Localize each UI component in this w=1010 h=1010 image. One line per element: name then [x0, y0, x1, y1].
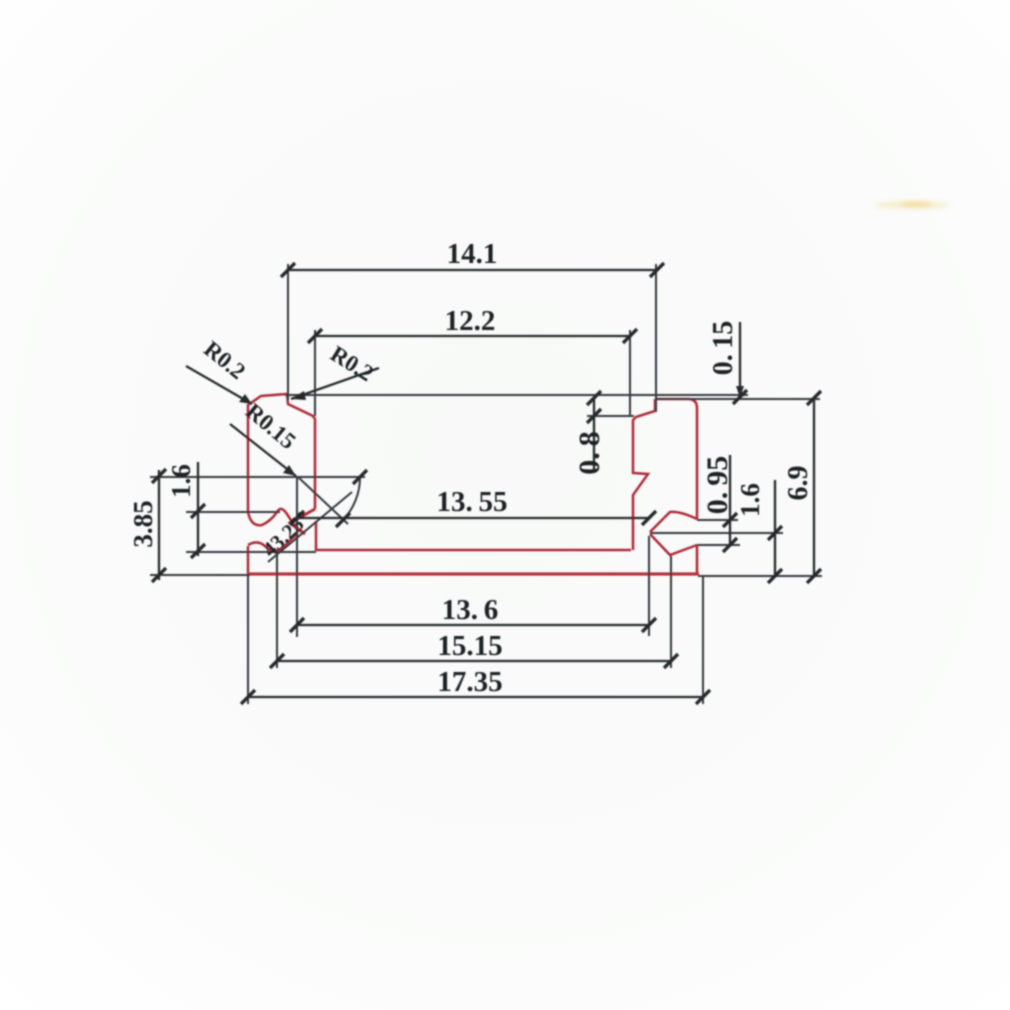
ext 0.8 step	[587, 415, 634, 417]
ext right apex level	[650, 532, 783, 534]
dimension ticks	[152, 263, 821, 704]
dim line 14.1	[288, 269, 657, 271]
svg-text:0. 95: 0. 95	[701, 456, 734, 515]
dim texts vertical	[128, 321, 814, 548]
svg-text:6.9: 6.9	[783, 466, 814, 501]
dim line 1.6 right	[774, 480, 776, 577]
angle text diagonal	[268, 492, 352, 562]
svg-text:0. 8: 0. 8	[573, 431, 606, 475]
svg-text:13. 55: 13. 55	[436, 486, 507, 518]
svg-text:1.6: 1.6	[166, 464, 196, 498]
dim line 1.6 left	[197, 462, 199, 556]
ext slot upper y512	[186, 511, 280, 513]
dim line 17.35	[248, 696, 703, 698]
svg-text:1.6: 1.6	[735, 483, 765, 517]
profile: channel floor	[316, 521, 631, 550]
profile: right wall lower outer	[696, 545, 699, 574]
dim line 13.6	[297, 624, 649, 626]
dim line 0.8	[593, 397, 595, 473]
ext top level right wall	[656, 398, 820, 400]
svg-text:13. 6: 13. 6	[442, 594, 499, 626]
profile: right slot	[650, 512, 697, 532]
dim line 6.9	[813, 397, 815, 577]
dim line 15.15	[277, 660, 671, 662]
svg-text:12.2: 12.2	[445, 305, 496, 337]
profile: right wall	[655, 399, 697, 519]
ext slot lower y552	[186, 551, 316, 553]
ext bottom right	[698, 575, 822, 577]
dim line 12.2	[315, 335, 630, 337]
profile: left slot upper edge	[248, 509, 298, 531]
ext bottom left	[150, 574, 250, 576]
extension lines	[150, 264, 822, 704]
ext vertical 17.35 left	[247, 576, 249, 704]
svg-text:17.35: 17.35	[437, 666, 502, 698]
ext 12.2 right	[629, 330, 631, 417]
profile: left wall inner diagonal	[290, 509, 315, 534]
ext top level left wall	[285, 394, 748, 396]
ext right slot mouth bottom	[697, 544, 740, 546]
ext vertical 15.15 right	[670, 556, 672, 668]
ext 14.1 left	[287, 264, 289, 400]
leader arrows	[239, 386, 744, 476]
radius and angle labels	[199, 336, 378, 561]
profile outline: left wall top	[248, 394, 699, 574]
ext right slot mouth top	[697, 519, 738, 521]
leader R0.15	[230, 424, 296, 476]
profile: left slot lower edge	[248, 533, 298, 551]
dim line 0.15	[739, 322, 741, 397]
ext 12.2 left	[314, 330, 316, 416]
ext vertical 15.15 left	[276, 553, 278, 668]
dim texts horizontal	[436, 238, 507, 698]
ext slot level y477	[150, 476, 365, 478]
ext vertical right apex	[648, 536, 650, 636]
ext vertical 17.35 right	[702, 577, 704, 704]
svg-text:3.85: 3.85	[128, 500, 158, 547]
angle leg diagonal	[298, 477, 348, 524]
dim line 3.85	[158, 470, 160, 580]
leader R0.2 #2	[291, 368, 379, 399]
profile: left wall lower outer	[247, 546, 250, 574]
dimension lines	[159, 270, 814, 697]
angle arc	[343, 477, 360, 520]
dim line 0.95	[729, 455, 731, 546]
profile: bottom line	[248, 572, 699, 575]
ext 14.1 right	[655, 264, 657, 412]
svg-text:15.15: 15.15	[437, 630, 502, 662]
yellow smudge	[874, 201, 950, 209]
svg-text:0. 15: 0. 15	[708, 321, 739, 376]
ext vertical left apex	[296, 477, 298, 637]
leader R0.2 #1	[186, 366, 252, 404]
dim line 13.55	[297, 517, 649, 519]
svg-text:14.1: 14.1	[447, 238, 498, 270]
